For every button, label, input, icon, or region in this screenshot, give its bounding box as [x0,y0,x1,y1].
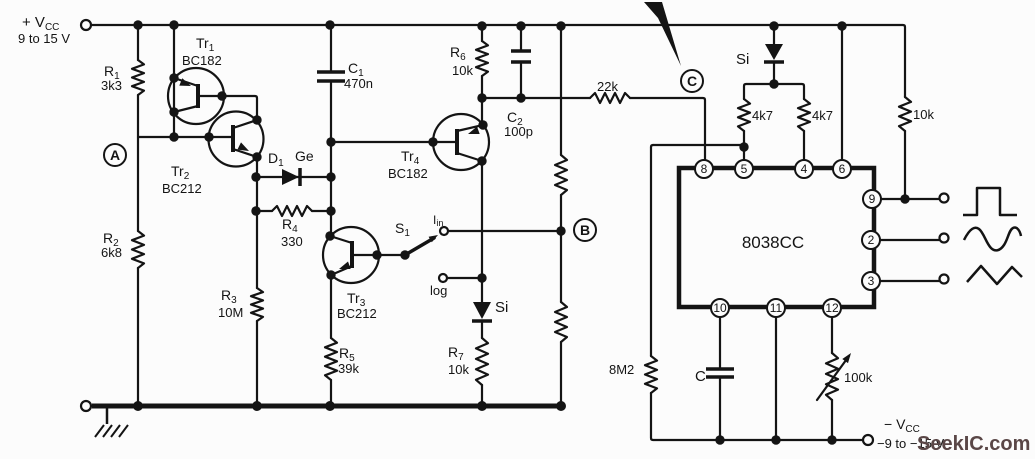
svg-text:10: 10 [713,301,727,315]
svg-text:10k: 10k [913,107,934,122]
svg-text:3: 3 [868,274,875,288]
svg-text:12: 12 [825,301,839,315]
svg-text:8M2: 8M2 [609,362,634,377]
svg-text:6k8: 6k8 [101,245,122,260]
svg-text:C: C [687,73,697,89]
svg-text:8038CC: 8038CC [742,233,804,252]
svg-text:10k: 10k [452,63,473,78]
svg-text:10k: 10k [448,362,469,377]
svg-text:8: 8 [701,162,708,176]
svg-text:BC212: BC212 [162,181,202,196]
svg-text:11: 11 [770,301,783,315]
svg-text:BC182: BC182 [388,166,428,181]
svg-text:6: 6 [839,162,846,176]
svg-text:470n: 470n [344,76,373,91]
svg-text:log: log [430,283,447,298]
svg-text:4k7: 4k7 [812,108,833,123]
svg-text:BC182: BC182 [182,53,222,68]
svg-text:3k3: 3k3 [101,78,122,93]
svg-text:9 to 15 V: 9 to 15 V [18,31,70,46]
svg-text:10M: 10M [218,305,243,320]
svg-text:9: 9 [869,192,876,206]
svg-text:4: 4 [801,162,808,176]
svg-text:BC212: BC212 [337,306,377,321]
svg-text:100p: 100p [504,124,533,139]
svg-text:2: 2 [868,233,875,247]
svg-text:B: B [580,222,590,238]
svg-text:C: C [695,368,706,385]
svg-text:4k7: 4k7 [752,108,773,123]
svg-text:22k: 22k [597,79,618,94]
svg-text:SeekIC.com: SeekIC.com [917,433,1030,455]
svg-text:330: 330 [281,234,303,249]
svg-text:39k: 39k [338,361,359,376]
svg-text:Si: Si [495,299,508,316]
svg-text:Si: Si [736,51,749,68]
svg-text:Ge: Ge [295,148,314,164]
svg-text:5: 5 [741,162,748,176]
svg-text:100k: 100k [844,370,873,385]
svg-text:A: A [110,147,120,163]
